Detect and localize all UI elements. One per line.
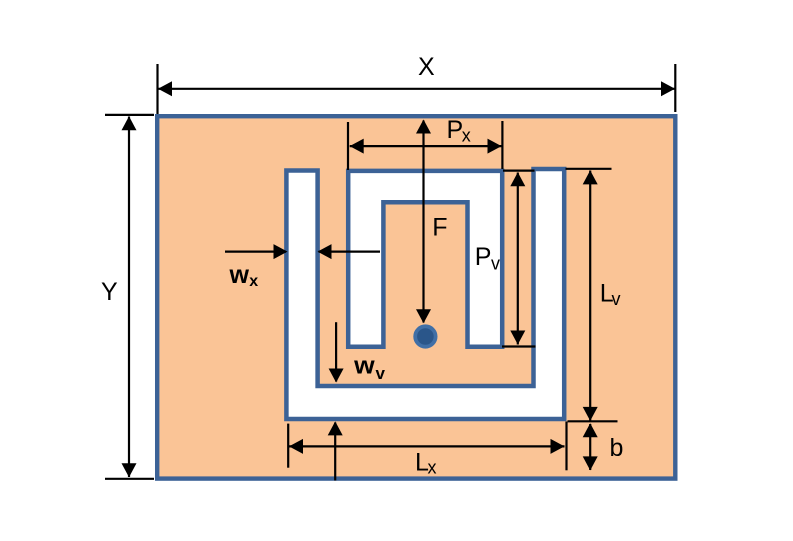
svg-text:b: b	[610, 434, 624, 462]
feed position F arrow	[416, 120, 431, 324]
dimension Lx extension line left	[287, 424, 289, 468]
dimension Px arrow	[350, 139, 502, 154]
dimension Px extension line right	[501, 121, 503, 169]
patch outer rectangle	[157, 116, 675, 478]
svg-text:x: x	[249, 273, 258, 290]
svg-text:Y: Y	[101, 278, 118, 306]
dimension Y arrow	[122, 116, 137, 477]
dimension Lv arrow	[583, 170, 598, 421]
dimension X arrow	[158, 81, 675, 96]
svg-text:F: F	[432, 213, 447, 241]
svg-text:x: x	[462, 126, 471, 146]
svg-text:w: w	[353, 352, 375, 379]
dimension Pv arrow	[510, 172, 525, 344]
dimension Lx extension line right	[565, 422, 567, 471]
dimension Y tick top	[105, 114, 154, 116]
dimension wx arrow pointing right	[225, 244, 288, 259]
shared tick between Lv and b	[568, 420, 618, 422]
svg-text:P: P	[447, 116, 464, 144]
dimension wx arrow pointing left	[318, 244, 381, 259]
svg-text:P: P	[475, 243, 492, 271]
U-slot (outer slot, open notch with island)	[286, 169, 564, 419]
dimension wv arrow pointing down	[329, 322, 344, 382]
dimension b arrow	[583, 423, 598, 470]
dimension wv arrow pointing up	[328, 421, 343, 480]
feed point circle	[415, 326, 435, 346]
dimension Pv tick top	[503, 170, 535, 172]
svg-text:x: x	[428, 458, 437, 478]
dimension Y tick bottom	[105, 478, 154, 480]
inverted-U slot (inner slot around stub)	[348, 171, 502, 347]
dimension Lv tick top	[566, 168, 612, 170]
dimension Px extension line left	[347, 122, 349, 170]
svg-text:v: v	[491, 254, 500, 274]
dimension Pv tick bottom	[502, 345, 536, 347]
svg-text:X: X	[418, 53, 435, 81]
svg-text:w: w	[229, 261, 250, 289]
dimension X extension line left	[156, 64, 158, 114]
svg-text:v: v	[612, 289, 621, 309]
dimension Lx arrow	[289, 439, 565, 454]
dimension X extension line right	[674, 64, 676, 112]
svg-text:v: v	[376, 364, 386, 383]
